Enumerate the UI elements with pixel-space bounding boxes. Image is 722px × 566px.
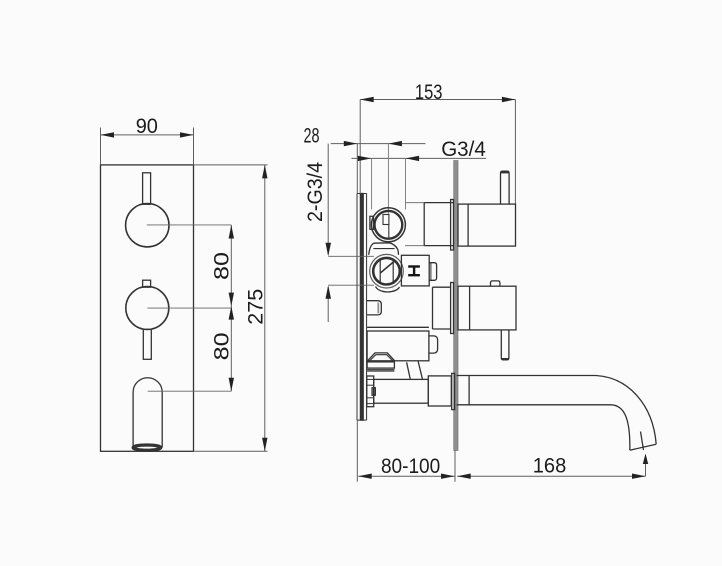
svg-text:G3/4: G3/4 (441, 137, 486, 161)
svg-text:275: 275 (244, 289, 268, 325)
svg-text:80-100: 80-100 (381, 454, 440, 478)
svg-text:2-G3/4: 2-G3/4 (303, 162, 327, 222)
svg-text:90: 90 (136, 114, 158, 138)
svg-text:28: 28 (304, 124, 320, 148)
svg-text:168: 168 (533, 453, 567, 477)
svg-text:80: 80 (210, 332, 234, 360)
svg-text:80: 80 (210, 252, 234, 280)
svg-text:153: 153 (415, 80, 443, 104)
